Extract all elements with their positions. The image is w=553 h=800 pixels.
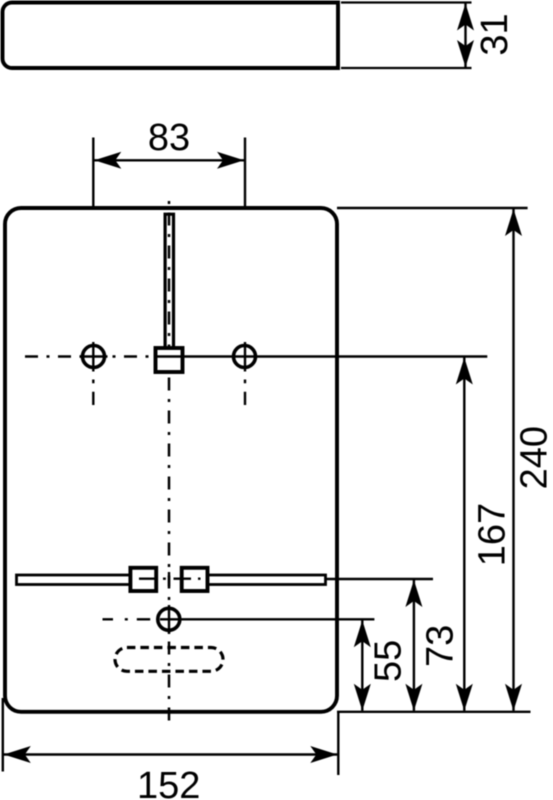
svg-text:31: 31 [474,13,516,55]
svg-text:83: 83 [148,117,190,159]
svg-text:167: 167 [472,503,514,566]
svg-text:55: 55 [368,640,410,682]
svg-text:240: 240 [514,426,553,489]
svg-text:152: 152 [137,765,200,800]
svg-text:73: 73 [420,625,462,667]
